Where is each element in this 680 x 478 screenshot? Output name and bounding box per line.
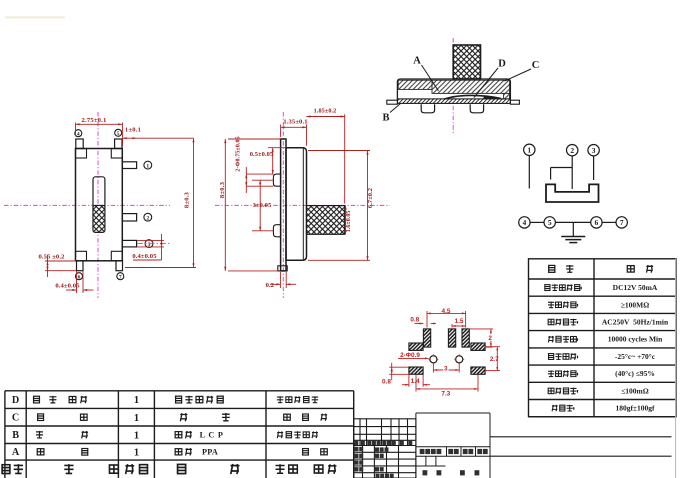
dimension 0.4+-0.05 pin 3 thickness <box>137 239 164 241</box>
pcb pad top-right vertical <box>462 329 469 347</box>
label zhongliang <box>463 449 468 454</box>
svg-text:7.3: 7.3 <box>441 390 450 397</box>
pcb hole right 0.9mm <box>456 356 463 363</box>
svg-text:AC250V 50Hz/1min: AC250V 50Hz/1min <box>602 318 669 327</box>
dimension 1.6+-0.05 handle height <box>345 206 347 235</box>
assembly contact spring D <box>444 95 501 99</box>
svg-text:8±0.3: 8±0.3 <box>184 191 191 208</box>
pcb dimension 0.8 top <box>415 323 424 325</box>
svg-text:2: 2 <box>488 335 492 342</box>
svg-text:(40°c) ≤95%: (40°c) ≤95% <box>615 369 655 378</box>
svg-text:5: 5 <box>117 131 120 137</box>
side view terminal plate <box>281 139 286 271</box>
dimension 2.75+-0.1 top of front view <box>75 123 77 137</box>
parts row C name gaizi <box>38 414 44 421</box>
svg-text:1: 1 <box>527 146 531 155</box>
svg-text:4: 4 <box>523 218 527 227</box>
svg-text:1: 1 <box>134 395 139 406</box>
svg-text:1.6±0.05: 1.6±0.05 <box>346 211 352 233</box>
spec row 5 label <box>549 354 554 360</box>
label jieduanbiaoji <box>420 449 425 454</box>
svg-text:1.85±0.2: 1.85±0.2 <box>314 108 337 115</box>
svg-text:1: 1 <box>134 413 139 424</box>
title block revision grid <box>354 419 416 446</box>
assembly solder tab right <box>470 104 483 113</box>
front view top-right mounting tab <box>115 139 122 149</box>
svg-text:3: 3 <box>444 365 448 372</box>
schematic terminal 1 <box>524 144 535 155</box>
side view slider handle hatched <box>307 206 345 235</box>
parts footer dutu yanse <box>276 464 285 474</box>
title block signature grid <box>354 446 416 478</box>
terminal label circle 3 <box>145 240 153 248</box>
svg-text:8±0.3: 8±0.3 <box>219 181 226 198</box>
parts row C material huangtong <box>180 413 187 421</box>
dimension 0.2 plate thickness <box>279 272 281 288</box>
parts footer shuliang <box>125 464 134 474</box>
spec row 8 label <box>552 405 558 411</box>
svg-text:4.5: 4.5 <box>442 308 451 315</box>
parts row A material jinkou PPA <box>175 449 182 455</box>
wire terminal 5 to 6 <box>555 221 590 223</box>
front view top-right corner step <box>111 149 122 159</box>
side view centerline vertical <box>282 112 284 298</box>
svg-text:A: A <box>12 447 20 458</box>
terminal label circle 2 <box>144 213 152 221</box>
pcb pad right horizontal <box>471 343 485 350</box>
pcb dimension 3 hole pitch <box>432 364 434 373</box>
assembly cover hatch right section <box>432 80 510 93</box>
svg-text:3±0.05: 3±0.05 <box>253 202 272 209</box>
parts row B finish heise yu duyin <box>277 431 283 438</box>
label shuliang <box>448 449 453 454</box>
parts row C finish yinbaise <box>284 414 291 420</box>
svg-text:0.55 ±0.2: 0.55 ±0.2 <box>39 254 66 261</box>
front view slider slot <box>93 177 105 233</box>
spec row 3 label <box>548 319 554 324</box>
wire jog from terminal 2 toward left throw <box>551 167 573 169</box>
dimension 1.35+-0.1 side view body width <box>280 125 282 138</box>
pcb pad left horizontal <box>409 343 423 350</box>
svg-text:2.75±0.1: 2.75±0.1 <box>81 117 106 124</box>
spec row 7 label <box>548 388 554 393</box>
dimension 0.55+-0.2 bottom-left tab height <box>45 260 76 262</box>
svg-text:PPA: PPA <box>202 448 218 457</box>
svg-text:2-Φ0.9: 2-Φ0.9 <box>400 352 420 359</box>
decorative faint strip (not labelled further) <box>5 16 65 18</box>
pcb dimension 1.4 <box>408 375 410 387</box>
pcb dimension 2 right <box>470 328 493 330</box>
svg-text:2.7: 2.7 <box>490 356 499 363</box>
terminal label circle 7 <box>117 273 124 280</box>
side view centerline horizontal <box>215 204 390 206</box>
front view bottom-right corner step <box>111 251 122 260</box>
spec row 1 label <box>545 285 550 291</box>
parts row D name jiechu huangpian <box>34 396 40 403</box>
svg-text:2: 2 <box>146 216 149 222</box>
parts footer mingcheng <box>64 464 73 474</box>
side view contact dimple lower <box>273 225 280 237</box>
schematic terminal 7 <box>616 217 627 228</box>
wire stub from terminal 1 <box>528 156 530 189</box>
assembly knob A hatched <box>453 45 480 79</box>
side view plate bottom foot <box>278 266 287 271</box>
parts table grid <box>5 391 354 478</box>
svg-text:B: B <box>382 113 389 124</box>
pcb dimension 1.5 <box>451 324 453 328</box>
pcb hole left 0.9mm <box>430 356 437 363</box>
side view molded body <box>286 148 307 261</box>
front view slider knob hatched <box>93 205 105 232</box>
parts row D material fuyinlinqingtong <box>176 396 182 403</box>
wire from terminal 3 to right throw <box>593 156 595 180</box>
schematic terminal 6 <box>591 217 602 228</box>
front view centerline horizontal <box>4 204 170 206</box>
svg-text:1±0.1: 1±0.1 <box>125 127 141 134</box>
dimension 0.4+-0.05 bottom tab width <box>76 271 78 293</box>
label bili <box>477 449 482 454</box>
svg-text:-25°c~ +70°c: -25°c~ +70°c <box>615 352 656 361</box>
svg-text:0.8: 0.8 <box>410 316 419 323</box>
svg-text:D: D <box>12 395 19 406</box>
front view body outline <box>76 149 123 261</box>
svg-text:1.35±0.1: 1.35±0.1 <box>283 118 307 125</box>
title block right area lines <box>490 436 672 438</box>
parts row A finish baise <box>303 449 309 456</box>
pcb pad bottom-right <box>471 367 485 374</box>
svg-text:1: 1 <box>134 447 139 458</box>
svg-text:10000 cycles Min: 10000 cycles Min <box>608 335 663 344</box>
svg-text:B: B <box>12 430 19 441</box>
svg-text:0.4±0.05: 0.4±0.05 <box>132 253 157 260</box>
front view bottom-right mounting tab <box>116 261 123 271</box>
front view pin 1 <box>122 162 136 169</box>
dimension 8+-0.3 front view height <box>125 267 196 269</box>
schematic terminal 5 <box>544 217 555 228</box>
parts row B material jinkou LCP <box>175 432 182 438</box>
svg-text:1.4: 1.4 <box>411 378 420 385</box>
assembly cover hatch left section <box>398 80 432 89</box>
spec header guige <box>627 266 634 272</box>
pcb pad top-left vertical <box>423 329 430 347</box>
svg-text:2: 2 <box>570 146 574 155</box>
schematic terminal 3 <box>588 145 599 156</box>
svg-text:4: 4 <box>77 132 80 138</box>
pcb dimension 2.7 right <box>486 346 500 348</box>
svg-text:C: C <box>12 413 19 424</box>
svg-text:1: 1 <box>146 164 149 170</box>
wire terminal 6 to 7 <box>602 221 616 223</box>
svg-text:0.2: 0.2 <box>266 282 275 289</box>
signature labels sheji biaozhunhua etc <box>355 447 359 451</box>
revision row header tiny text biaoji chushu... <box>354 441 358 445</box>
front view bottom-left corner step <box>76 251 87 260</box>
svg-text:≥100MΩ: ≥100MΩ <box>621 300 649 309</box>
spec row 2 label <box>548 301 554 308</box>
assembly base hatched <box>397 99 510 104</box>
dimension 8+-0.3 side view height <box>228 138 281 140</box>
svg-text:DC12V 50mA: DC12V 50mA <box>613 283 658 292</box>
dimension 1+-0.1 pin length front view <box>123 137 194 139</box>
front view top-left corner step <box>76 149 87 159</box>
title block middle box <box>416 413 490 478</box>
terminal label circle 4 <box>75 130 82 137</box>
front view top-left mounting tab <box>76 139 83 149</box>
svg-text:2-Φ0.75±0.05: 2-Φ0.75±0.05 <box>235 136 241 171</box>
drawing sheet right faint border <box>675 259 677 478</box>
pcb pad top-middle vertical <box>448 329 455 347</box>
parts row B name dizuo <box>36 431 43 439</box>
dimension 2-dia0.75 contact dimples <box>245 167 247 193</box>
assembly base left wing <box>387 100 398 104</box>
pin 3 centerline pink <box>137 243 172 245</box>
pcb dimension 4.5 <box>426 311 428 328</box>
svg-text:1: 1 <box>134 430 139 441</box>
assembly view centerline <box>452 38 454 135</box>
parts footer zihao <box>2 465 10 474</box>
dimension 6.7+-0.2 body height <box>308 150 370 152</box>
wire terminal 4 to 5 <box>530 221 544 223</box>
svg-text:A: A <box>413 56 421 67</box>
svg-text:1.5: 1.5 <box>455 318 464 325</box>
ground symbol <box>561 236 585 238</box>
svg-text:0.4±0.05: 0.4±0.05 <box>55 282 80 289</box>
ground stem <box>572 222 574 236</box>
pcb dimension 0.8 bottom-left <box>389 366 409 368</box>
front view bottom-left mounting tab <box>77 261 84 271</box>
svg-text:0.5±0.05: 0.5±0.05 <box>250 151 273 158</box>
svg-text:C: C <box>532 60 540 71</box>
specification table grid <box>529 259 677 417</box>
svg-text:3: 3 <box>592 146 596 155</box>
svg-text:0.8: 0.8 <box>382 378 391 385</box>
svg-text:6.7±0.2: 6.7±0.2 <box>367 188 374 208</box>
pcb pad bottom-left <box>409 367 423 374</box>
spec row 6 label <box>548 370 554 377</box>
dimension 3+-0.05 dimple pitch <box>252 179 274 181</box>
terminal label circle 1 <box>144 161 152 169</box>
front view centerline vertical <box>97 112 99 298</box>
parts footer cailiao <box>178 464 186 473</box>
svg-text:D: D <box>498 59 506 70</box>
spec row 4 label <box>548 336 554 342</box>
parts row D finish yinbaise duyin <box>277 396 283 403</box>
terminal label circle 5 <box>115 129 122 136</box>
assembly cover outline <box>397 79 510 99</box>
svg-text:5: 5 <box>548 218 552 227</box>
schematic terminal 2 <box>567 145 578 156</box>
schematic terminal 4 <box>519 217 530 228</box>
svg-text:L C P: L C P <box>200 431 224 440</box>
wire from terminal 2 to common contact <box>571 156 573 189</box>
svg-text:6: 6 <box>78 275 81 281</box>
pcb dimension 7.3 bottom <box>415 375 417 392</box>
svg-text:6: 6 <box>595 218 599 227</box>
svg-text:≤100mΩ: ≤100mΩ <box>621 386 649 395</box>
dimension 1.85+-0.2 handle protrusion <box>344 114 346 203</box>
assembly solder tab left <box>421 104 434 113</box>
slider contact channel <box>546 184 599 202</box>
front view pin 2 <box>122 214 136 221</box>
label gong zhang di zhang <box>423 470 428 475</box>
dimension 0.5+-0.05 dimple offset <box>268 147 286 149</box>
parts row A name an bing <box>37 449 44 455</box>
assembly base right wing <box>510 100 519 104</box>
terminal label circle 6 <box>76 273 83 280</box>
svg-text:7: 7 <box>620 218 624 227</box>
side view contact dimple upper <box>273 174 280 186</box>
svg-text:180gf±100gf: 180gf±100gf <box>615 404 655 413</box>
side view body inner edge line <box>302 148 304 259</box>
svg-text:7: 7 <box>119 275 122 281</box>
spec header xiangmu <box>549 265 555 272</box>
front view pin 3 <box>122 240 136 247</box>
